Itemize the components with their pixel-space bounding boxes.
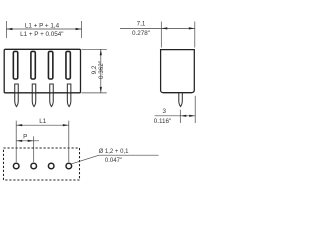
svg-text:0.278": 0.278" bbox=[132, 30, 150, 37]
svg-text:P: P bbox=[23, 133, 27, 140]
svg-text:3: 3 bbox=[163, 108, 167, 115]
svg-text:0.362": 0.362" bbox=[98, 61, 105, 79]
svg-text:0.116": 0.116" bbox=[154, 118, 172, 125]
svg-text:Ø 1,2 + 0,1: Ø 1,2 + 0,1 bbox=[99, 149, 130, 155]
svg-text:L1 + P + 0.054": L1 + P + 0.054" bbox=[20, 31, 63, 38]
svg-text:L1: L1 bbox=[39, 118, 47, 125]
svg-text:L1 + P + 1,4: L1 + P + 1,4 bbox=[25, 22, 60, 29]
svg-text:0.047": 0.047" bbox=[105, 158, 122, 164]
svg-text:7,1: 7,1 bbox=[137, 21, 146, 28]
